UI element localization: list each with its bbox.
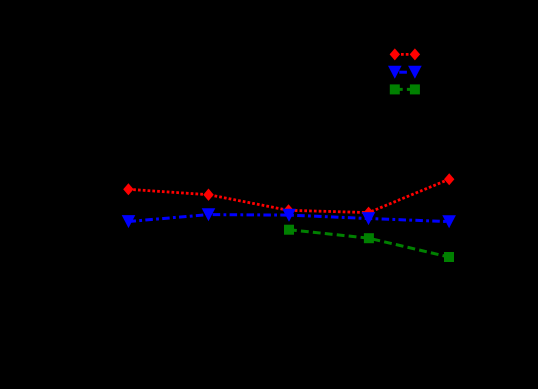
green dashed series line bbox=[289, 230, 449, 257]
blue dash-dot series line bbox=[129, 215, 450, 222]
legend red diamond marker right bbox=[410, 48, 420, 60]
blue triangle marker 1 bbox=[122, 215, 136, 228]
green square marker 2 bbox=[364, 233, 374, 243]
legend red diamond marker left bbox=[390, 48, 400, 60]
legend blue dash-dot line sample bbox=[399, 71, 407, 74]
blue triangle marker 5 bbox=[442, 215, 456, 228]
blue triangle marker 2 bbox=[202, 208, 216, 221]
red diamond marker 4 bbox=[363, 207, 373, 219]
legend blue triangle marker left bbox=[388, 66, 402, 79]
red diamond marker 3 bbox=[283, 204, 293, 216]
red dotted series line bbox=[128, 179, 449, 212]
red diamond marker 1 bbox=[123, 183, 133, 195]
blue triangle marker 3 bbox=[282, 209, 296, 222]
legend red dotted line sample bbox=[401, 53, 409, 56]
legend green dashed line sample bbox=[395, 88, 415, 91]
red diamond marker 2 bbox=[203, 189, 213, 201]
legend blue triangle marker right bbox=[408, 66, 422, 79]
legend green square marker left bbox=[390, 84, 400, 94]
green square marker 3 bbox=[444, 252, 454, 262]
green square marker 1 bbox=[284, 225, 294, 235]
legend green square marker right bbox=[410, 84, 420, 94]
blue triangle marker 4 bbox=[362, 212, 376, 225]
red diamond marker 5 bbox=[444, 173, 454, 185]
